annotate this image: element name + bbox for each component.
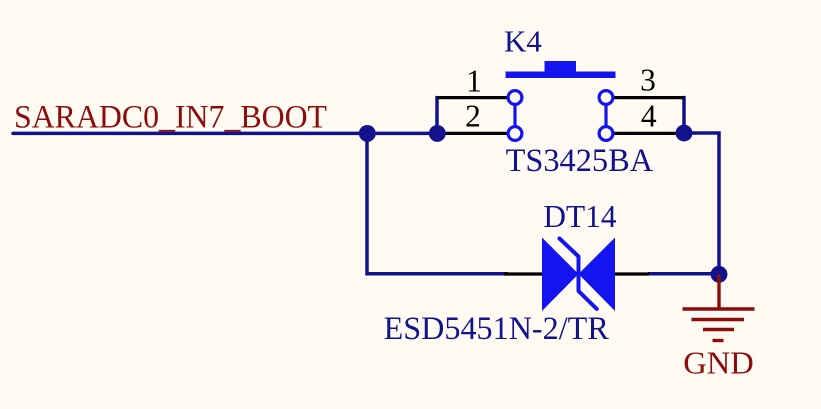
pin 4 circle (599, 127, 613, 141)
svg-text:ESD5451N-2/TR: ESD5451N-2/TR (384, 311, 610, 347)
pin 2 circle (508, 127, 522, 141)
svg-text:1: 1 (466, 63, 482, 98)
wire: vertical drop from node x367 down and right to TVS left (367, 133, 508, 273)
wire: TVS left lead (black) (504, 272, 543, 275)
wire: horizontal from TVS right to GND node (648, 272, 719, 276)
ground bar 3 (703, 328, 734, 331)
TVS diode DT14 right triangle (579, 238, 616, 312)
TVS diode DT14 center Z-bar (560, 239, 597, 310)
svg-text:GND: GND (683, 344, 754, 380)
ground bar 1 (683, 307, 755, 310)
wire: left switch-box vertical (pin1 to pin2 net) (435, 96, 439, 133)
junction node on main wire at x367 (359, 125, 376, 142)
wire: pin 2 lead (black) (437, 132, 508, 135)
svg-text:SARADC0_IN7_BOOT: SARADC0_IN7_BOOT (14, 99, 327, 135)
svg-text:4: 4 (641, 99, 657, 134)
svg-text:2: 2 (465, 99, 481, 134)
junction node at pin4 x684 (676, 125, 693, 142)
pushbutton K4 right contact link (604, 98, 607, 134)
junction node at GND x719 (711, 266, 728, 283)
svg-text:K4: K4 (504, 24, 542, 59)
TVS diode DT14 left triangle (542, 238, 579, 312)
wire: pin 1 lead (black) (437, 96, 508, 99)
wire: TVS right lead (black) (614, 272, 649, 275)
pin 1 circle (508, 91, 522, 105)
svg-text:3: 3 (640, 62, 656, 97)
junction node on main wire at x437 (pin2) (429, 125, 446, 142)
ground bar 4 (713, 339, 724, 342)
pushbutton K4 actuator bar (506, 61, 616, 78)
ground bar 2 (692, 318, 745, 321)
wire: net SARADC0_IN7_BOOT main horizontal (13, 132, 437, 136)
wire: pin 4 lead (black) (613, 132, 684, 135)
wire: pin 3 lead (black) (613, 96, 684, 99)
pin 3 circle (599, 91, 613, 105)
ground symbol stem (717, 274, 720, 309)
pushbutton K4 left contact link (513, 98, 516, 134)
svg-text:TS3425BA: TS3425BA (506, 143, 654, 179)
wire: right switch-box vertical, over to x719 and down to GND node (684, 96, 719, 274)
svg-text:DT14: DT14 (543, 199, 616, 234)
